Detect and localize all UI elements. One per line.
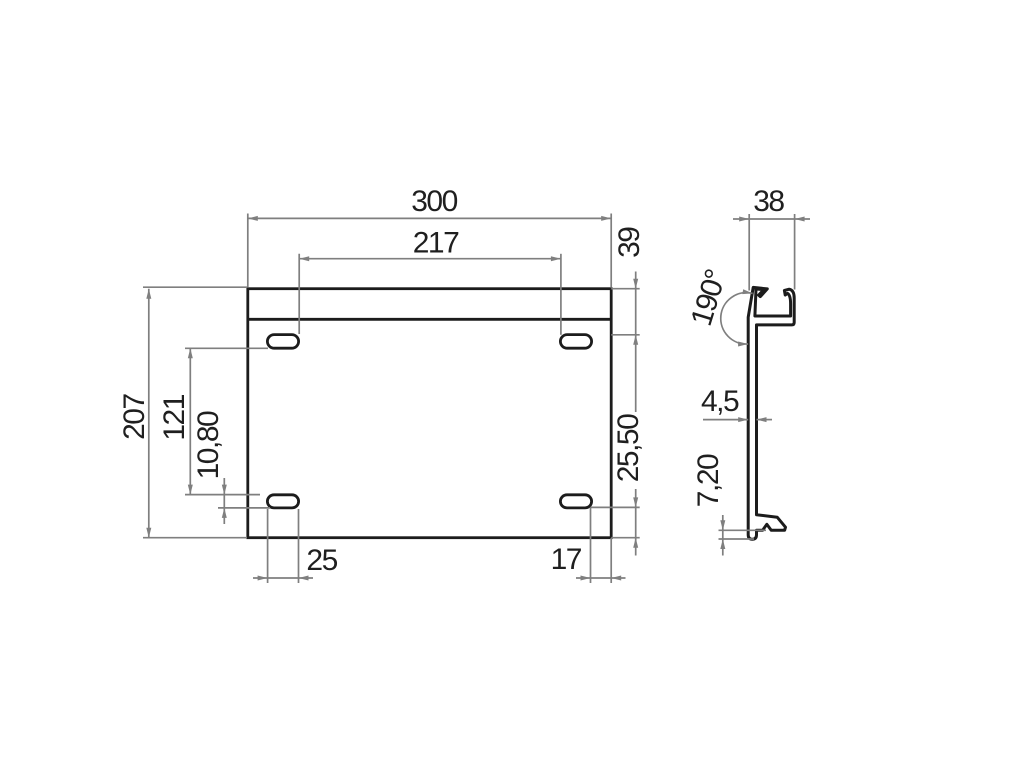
- slot lower-left: [267, 495, 298, 508]
- dimension 38: [733, 214, 810, 291]
- dimension 121: [185, 348, 268, 494]
- svg-text:217: 217: [413, 227, 459, 260]
- dimension 207: [143, 287, 247, 538]
- svg-text:4,5: 4,5: [701, 385, 739, 418]
- svg-text:10,80: 10,80: [192, 411, 225, 479]
- profile outline: [748, 287, 794, 539]
- dimension 10,80: [218, 478, 270, 524]
- dimension 25,50: [591, 489, 640, 556]
- slot lower-right: [560, 495, 591, 508]
- angle 190 arc: [721, 293, 753, 344]
- dimension 7,20: [719, 515, 767, 556]
- svg-text:17: 17: [551, 543, 582, 576]
- svg-text:39: 39: [613, 227, 646, 258]
- dimension 39: [611, 272, 640, 413]
- svg-text:25: 25: [306, 544, 337, 577]
- svg-text:207: 207: [118, 394, 151, 440]
- dimension 17: [576, 507, 626, 583]
- dimension 4,5: [703, 419, 772, 421]
- plate outline: [248, 289, 611, 538]
- dimension 25: [253, 509, 313, 583]
- svg-text:121: 121: [158, 394, 191, 440]
- slot upper-right: [560, 335, 591, 349]
- plate fold line: [248, 318, 611, 321]
- slot upper-left: [267, 335, 298, 349]
- dimension 300: [248, 214, 611, 288]
- svg-text:38: 38: [753, 185, 784, 218]
- svg-text:7,20: 7,20: [692, 454, 725, 507]
- svg-text:300: 300: [411, 185, 457, 218]
- svg-text:25,50: 25,50: [612, 414, 645, 482]
- dimension 217: [299, 254, 561, 335]
